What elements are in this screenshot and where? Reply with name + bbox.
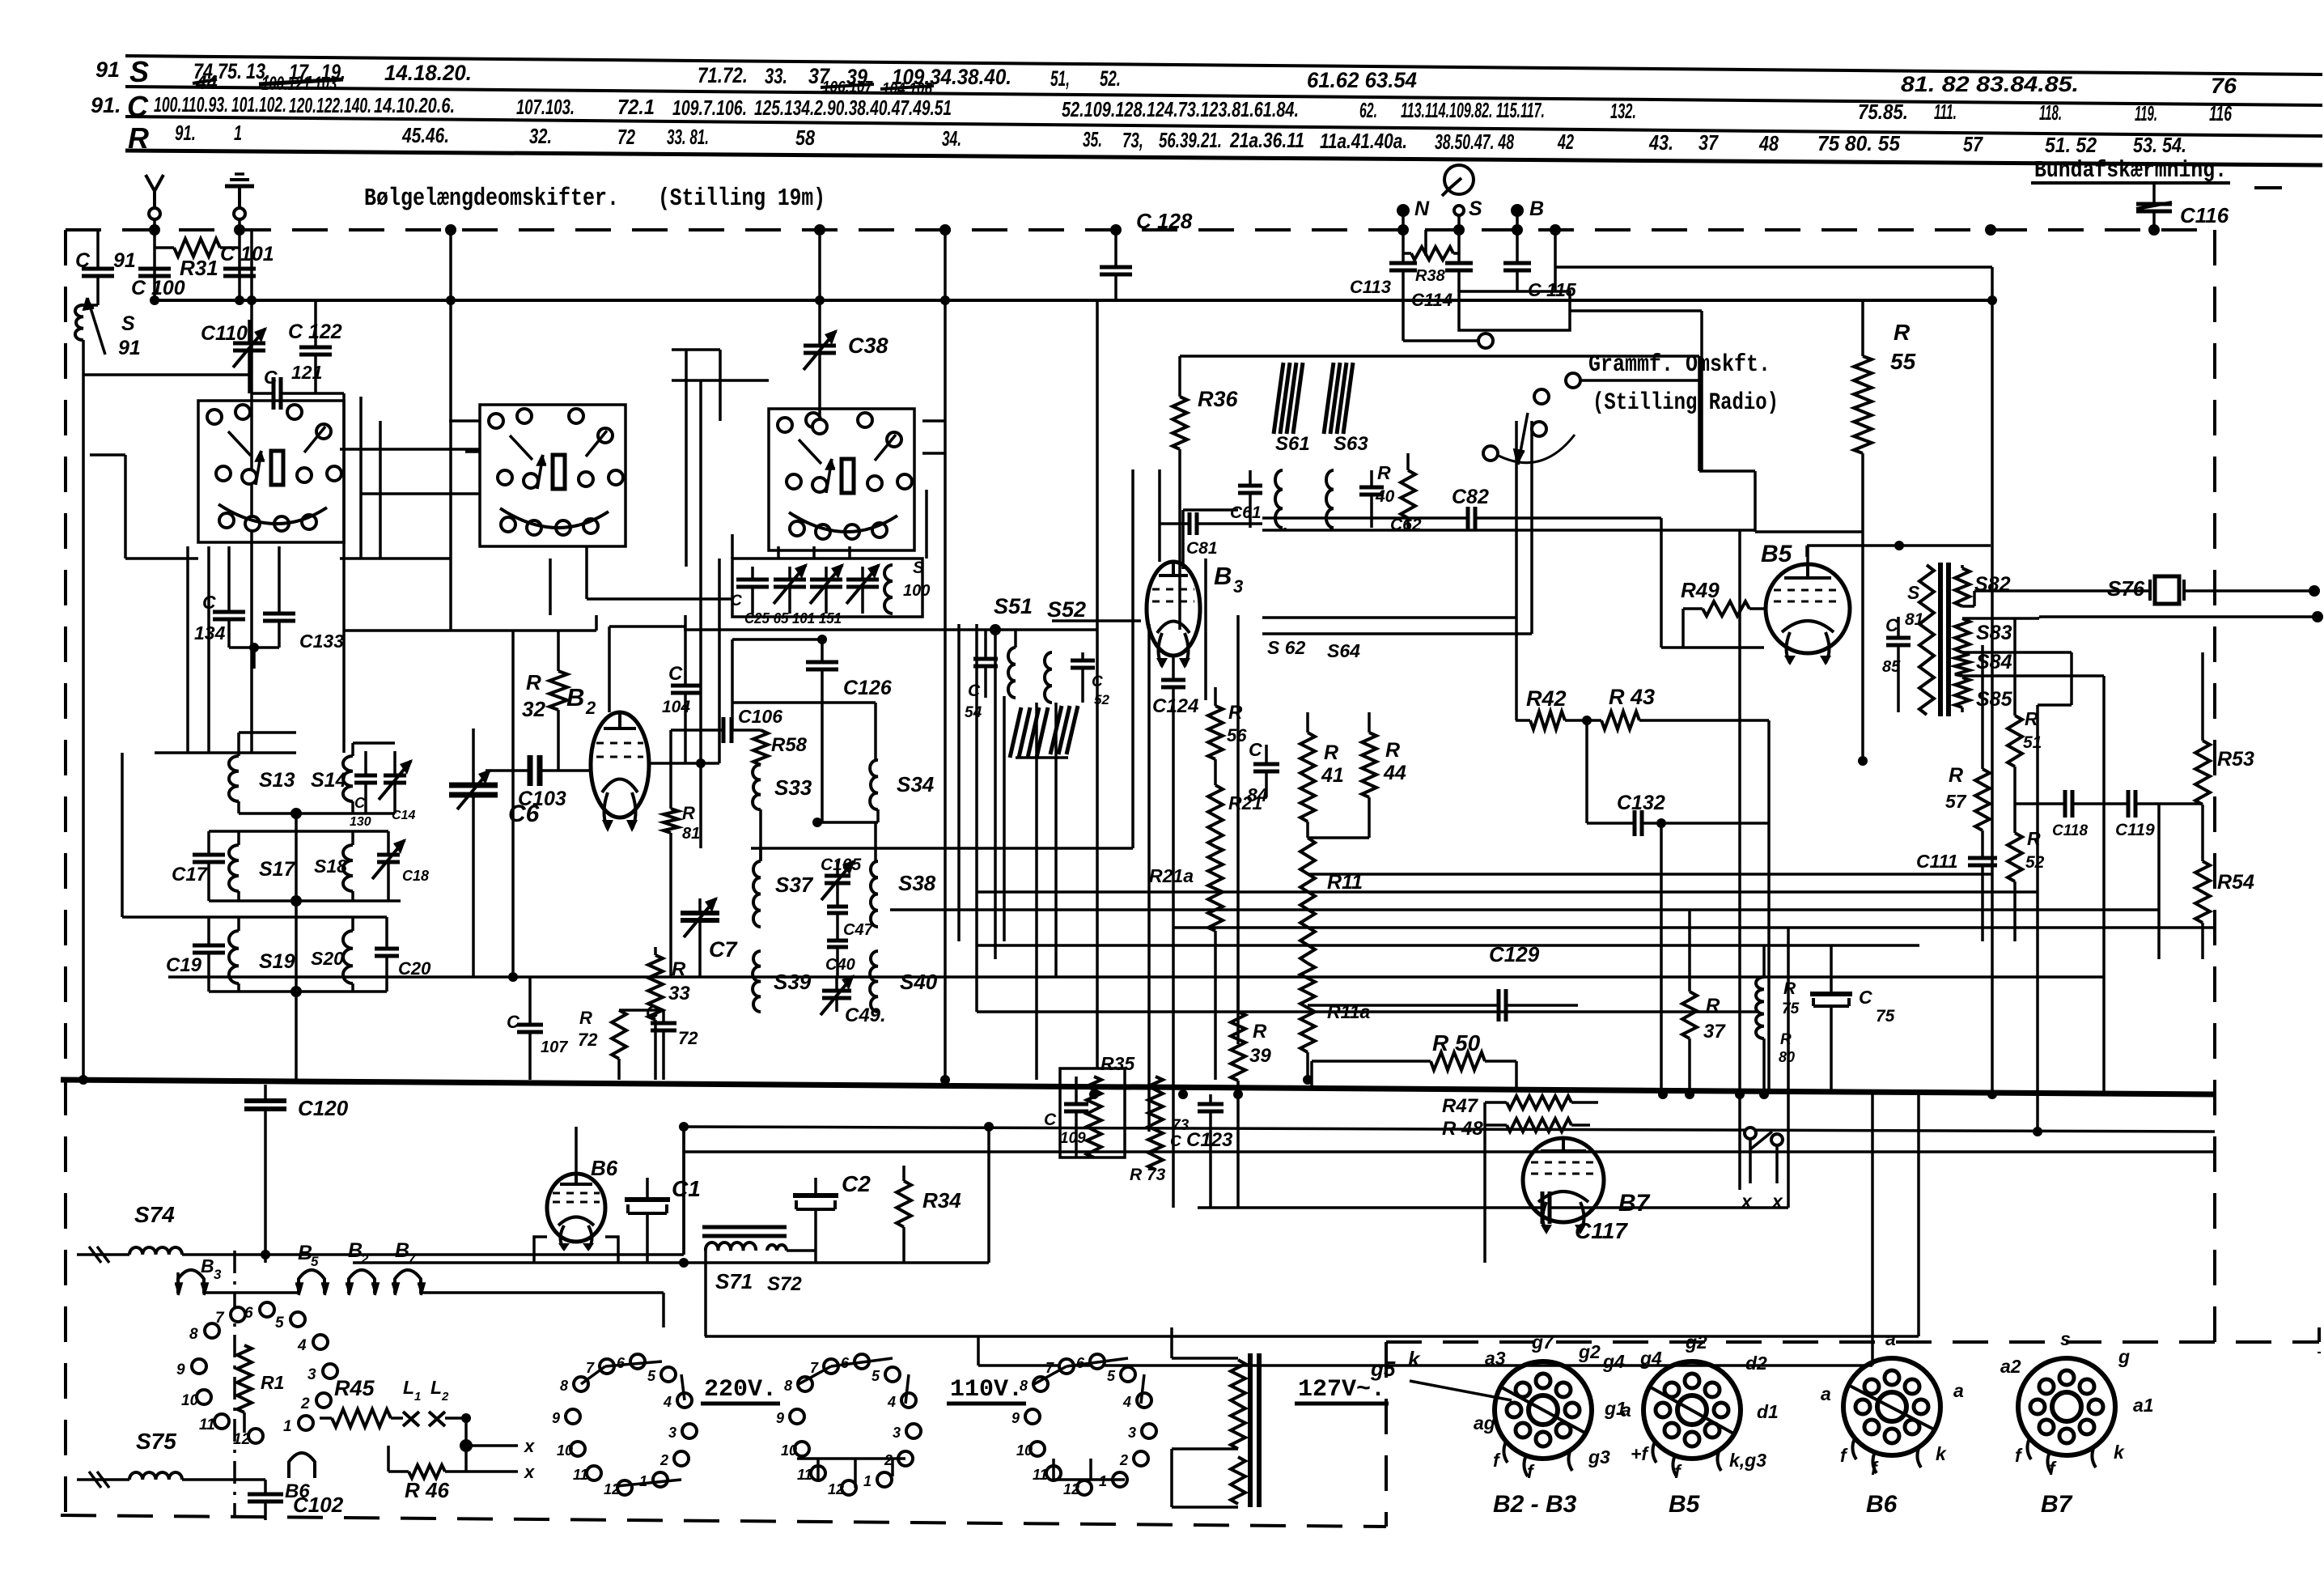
coil S34	[870, 760, 878, 809]
svg-text:1: 1	[414, 1390, 421, 1404]
svg-text:72: 72	[578, 1030, 598, 1050]
svg-text:35.: 35.	[1083, 127, 1102, 151]
coil S39	[753, 951, 761, 1012]
resistor R44	[1368, 712, 1371, 733]
wire	[925, 490, 928, 559]
svg-text:C111: C111	[1916, 851, 1958, 872]
wire	[994, 630, 997, 959]
dash-dot chassis divider	[233, 1251, 236, 1517]
svg-text:C: C	[968, 682, 981, 700]
svg-text:11: 11	[1033, 1467, 1048, 1483]
resistor R55	[1861, 300, 1864, 356]
capacitor C20	[385, 917, 388, 949]
svg-text:80: 80	[1779, 1049, 1795, 1065]
svg-text:119.: 119.	[2135, 101, 2157, 125]
wire	[812, 546, 816, 559]
wire	[124, 455, 127, 559]
capacitor C117	[1198, 1206, 1542, 1209]
svg-text:R: R	[1894, 320, 1911, 345]
svg-text:S61: S61	[1275, 433, 1310, 455]
svg-text:91.: 91.	[91, 93, 121, 117]
svg-text:C119: C119	[2115, 821, 2155, 839]
terminal B	[1511, 204, 1524, 217]
resistor R1	[237, 1345, 252, 1412]
svg-text:x: x	[524, 1462, 535, 1482]
svg-text:8: 8	[1020, 1378, 1028, 1394]
wire	[1585, 720, 1588, 823]
svg-text:1: 1	[283, 1418, 292, 1435]
svg-text:S75: S75	[136, 1429, 176, 1454]
wire	[1131, 469, 1134, 848]
svg-text:118.: 118.	[2039, 100, 2062, 125]
svg-text:5: 5	[1107, 1368, 1116, 1384]
capacitor C107	[528, 977, 532, 1025]
svg-text:C116: C116	[2180, 203, 2229, 227]
svg-text:R 46: R 46	[405, 1478, 449, 1502]
svg-text:B6: B6	[591, 1156, 618, 1180]
tube B5	[1766, 564, 1850, 653]
resistor R21	[1208, 785, 1223, 847]
parts table frame	[125, 56, 2322, 74]
svg-text:R: R	[1385, 739, 1400, 762]
svg-text:C 100: C 100	[131, 277, 185, 299]
svg-text:R53: R53	[2217, 748, 2254, 771]
grammofon switch	[1403, 339, 1478, 342]
svg-text:C2: C2	[842, 1171, 871, 1196]
tube socket B2-B3	[1495, 1361, 1592, 1459]
svg-text:33. 81.: 33. 81.	[667, 125, 709, 149]
capacitor C114	[1457, 230, 1461, 263]
winding S82	[1955, 568, 1970, 606]
svg-text:132.: 132.	[1610, 99, 1636, 123]
svg-text:58: 58	[795, 125, 815, 150]
coil S13	[229, 756, 239, 801]
resistor R39	[1236, 977, 1240, 1012]
svg-text:S: S	[129, 55, 149, 88]
capacitor C100	[138, 267, 171, 271]
svg-text:a: a	[1621, 1399, 1631, 1421]
wire	[90, 453, 125, 457]
svg-text:C1: C1	[672, 1176, 701, 1201]
wire x557	[449, 230, 452, 559]
bus thick ground	[61, 1080, 2216, 1094]
svg-text:C14: C14	[392, 809, 415, 822]
wire B6 box	[534, 1237, 547, 1263]
svg-text:42: 42	[1557, 130, 1574, 154]
svg-text:51. 52: 51. 52	[2045, 133, 2097, 157]
wire	[207, 546, 210, 753]
svg-text:B6: B6	[285, 1480, 310, 1502]
wire x1450	[1172, 687, 1175, 1208]
wire	[699, 559, 702, 848]
wire	[575, 1127, 578, 1174]
svg-text:40: 40	[1375, 487, 1395, 506]
svg-text:C 101: C 101	[220, 243, 274, 265]
capacitor C113	[1402, 230, 1405, 263]
antenna	[153, 191, 156, 208]
wire	[987, 1127, 990, 1263]
voltage selector 220V position	[574, 1377, 588, 1391]
wire	[449, 559, 452, 631]
trimmer C49	[835, 977, 838, 991]
resistor R35	[1087, 1077, 1101, 1157]
svg-text:S76: S76	[2107, 576, 2145, 601]
svg-text:72: 72	[617, 125, 635, 149]
svg-text:S39: S39	[774, 970, 812, 994]
wire antenna	[153, 219, 156, 300]
wire	[549, 559, 552, 615]
svg-text:4: 4	[663, 1394, 672, 1410]
capacitor C123	[1209, 1094, 1212, 1104]
svg-text:110V.: 110V.	[950, 1376, 1023, 1404]
svg-text:C: C	[1249, 739, 1262, 760]
svg-text:121: 121	[291, 362, 322, 383]
chassis dashed border left	[64, 230, 67, 1520]
svg-text:+f: +f	[1631, 1443, 1649, 1464]
coil S100	[884, 565, 893, 614]
trimmer C14	[393, 751, 397, 775]
resistor R54	[2201, 805, 2204, 861]
svg-text:x: x	[1740, 1191, 1753, 1212]
svg-text:11: 11	[199, 1416, 215, 1433]
output transformer core	[1938, 563, 1943, 716]
wire	[682, 1127, 685, 1255]
svg-text:91: 91	[113, 249, 136, 272]
svg-text:56.39.21.: 56.39.21.	[1159, 128, 1222, 152]
svg-text:S72: S72	[767, 1273, 802, 1295]
svg-text:a: a	[1953, 1380, 1964, 1401]
resistor R37	[1688, 910, 1691, 992]
svg-text:S37: S37	[775, 873, 814, 897]
capacitor C25 row	[751, 567, 754, 580]
svg-text:43.: 43.	[1648, 130, 1673, 155]
svg-text:R1: R1	[261, 1372, 284, 1393]
svg-text:1: 1	[1099, 1473, 1107, 1489]
tube socket box dashed top	[1386, 1340, 2319, 1344]
svg-text:62.: 62.	[1359, 98, 1377, 122]
wire y778	[684, 628, 1097, 631]
wire	[1698, 356, 1701, 471]
svg-text:48: 48	[1758, 131, 1779, 155]
svg-text:12: 12	[1063, 1481, 1079, 1497]
svg-text:S38: S38	[898, 871, 936, 895]
svg-text:C82: C82	[1452, 486, 1489, 508]
wire	[361, 492, 480, 495]
chassis dashed border bottom	[61, 1515, 1386, 1527]
svg-text:76: 76	[2211, 74, 2237, 98]
svg-text:C133: C133	[299, 631, 344, 652]
svg-text:130: 130	[350, 815, 371, 829]
svg-text:S64: S64	[1327, 640, 1360, 661]
wire	[957, 624, 961, 941]
svg-text:C: C	[1859, 987, 1872, 1008]
svg-text:72.1: 72.1	[617, 95, 655, 119]
resistor R46	[388, 1470, 409, 1473]
coil S37	[753, 861, 761, 927]
wire	[449, 419, 480, 423]
wire	[1871, 1094, 1874, 1366]
capacitor C106	[671, 728, 723, 732]
svg-text:R 48: R 48	[1442, 1118, 1483, 1140]
long bus y1250	[977, 1010, 1758, 1013]
winding tap wires	[1961, 565, 1964, 568]
svg-text:C38: C38	[848, 333, 888, 358]
wire	[1183, 508, 1238, 512]
svg-text:(Stilling Radio): (Stilling Radio)	[1592, 389, 1779, 417]
rotary wafer switch bank 2	[480, 405, 626, 546]
svg-text:2: 2	[360, 1251, 369, 1267]
tube socket box dashed corner right	[2318, 1327, 2321, 1353]
svg-text:R58: R58	[771, 734, 808, 756]
svg-text:116: 116	[2209, 101, 2232, 125]
svg-text:C132: C132	[1617, 792, 1665, 814]
svg-text:d1: d1	[1757, 1401, 1779, 1422]
svg-text:75: 75	[1782, 1000, 1800, 1017]
wire y655	[1262, 529, 1755, 532]
long bus y1651	[705, 1335, 1919, 1338]
coil S20	[343, 931, 353, 983]
svg-text:C61: C61	[1230, 503, 1262, 522]
wire	[1554, 230, 1557, 291]
main bus wire y371	[155, 299, 1991, 302]
svg-text:5: 5	[275, 1315, 284, 1332]
svg-text:2: 2	[659, 1452, 668, 1468]
svg-text:C113: C113	[1350, 277, 1391, 297]
coil S91	[75, 305, 83, 340]
wire	[1424, 230, 1427, 256]
winding S83	[1955, 618, 1970, 652]
svg-text:8: 8	[784, 1378, 792, 1394]
winding S81	[1919, 565, 1934, 715]
coil S51	[1014, 630, 1017, 648]
svg-text:R: R	[682, 803, 695, 823]
wire y1048	[751, 847, 1133, 850]
svg-text:R34: R34	[922, 1188, 961, 1213]
svg-text:a3: a3	[1485, 1348, 1506, 1369]
resistor R48	[1485, 1123, 1507, 1127]
wire	[186, 546, 189, 753]
svg-text:100: 100	[903, 582, 930, 600]
svg-text:14.10.20.6.: 14.10.20.6.	[374, 93, 455, 117]
tube socket B7	[2018, 1358, 2115, 1455]
wire	[1054, 703, 1058, 977]
long bus y1392	[684, 1127, 2215, 1132]
svg-text:33.: 33.	[765, 64, 787, 88]
resistor R31	[155, 246, 174, 249]
wire spine	[295, 813, 298, 1080]
svg-text:S14: S14	[311, 769, 347, 792]
resistor R42	[1516, 719, 1530, 722]
coil S75	[77, 1478, 129, 1481]
svg-text:S52: S52	[1047, 597, 1086, 622]
tube B3	[1147, 562, 1200, 656]
svg-text:91: 91	[95, 57, 120, 82]
ladder wires row1	[237, 733, 240, 756]
svg-text:100.110.93.: 100.110.93.	[154, 92, 228, 117]
svg-text:4: 4	[1122, 1394, 1131, 1410]
svg-text:C: C	[202, 592, 216, 613]
capacitor C133	[278, 546, 281, 614]
svg-text:5: 5	[647, 1368, 656, 1384]
svg-text:37: 37	[1703, 1021, 1726, 1043]
chassis dashed border right	[2213, 230, 2216, 1344]
svg-text:C: C	[1885, 615, 1899, 635]
output wires	[1974, 589, 2150, 592]
trimmer C65	[788, 567, 791, 580]
wire	[587, 597, 732, 601]
wire ground	[238, 219, 241, 300]
svg-text:R: R	[1228, 702, 1243, 724]
svg-text:R11: R11	[1327, 871, 1363, 894]
svg-text:B: B	[1214, 562, 1232, 590]
tube socket B6	[1843, 1358, 1940, 1455]
chassis dashed border top	[66, 228, 2215, 231]
capacitor C101	[223, 267, 256, 271]
svg-text:7: 7	[215, 1310, 225, 1327]
capacitor C103	[486, 769, 530, 772]
svg-text:34.: 34.	[942, 126, 961, 151]
svg-text:L: L	[403, 1377, 414, 1398]
resistor R75 coil	[1756, 977, 1764, 1038]
svg-text:41: 41	[1321, 764, 1344, 787]
svg-text:R49: R49	[1681, 578, 1720, 602]
svg-text:33: 33	[668, 983, 690, 1004]
trimmer C151	[861, 567, 864, 580]
svg-text:N: N	[1414, 197, 1430, 220]
svg-text:39: 39	[1249, 1045, 1271, 1067]
wire	[672, 379, 769, 382]
svg-text:g4: g4	[1602, 1351, 1625, 1372]
svg-text:B: B	[566, 683, 584, 711]
wire	[340, 557, 451, 560]
svg-text:C: C	[127, 90, 149, 123]
svg-text:R31: R31	[180, 256, 218, 280]
capacitor C2	[814, 1178, 817, 1196]
svg-text:54: 54	[965, 704, 982, 721]
svg-text:k: k	[1408, 1347, 1421, 1371]
wire	[125, 557, 198, 560]
svg-text:R: R	[1706, 995, 1720, 1017]
capacitor C84	[1265, 745, 1268, 764]
capacitor C75	[1830, 945, 1833, 994]
svg-text:6: 6	[244, 1305, 253, 1322]
svg-text:C: C	[75, 249, 91, 272]
svg-text:B5: B5	[1669, 1491, 1701, 1518]
wire y657 plate	[1755, 530, 1863, 533]
svg-text:S82: S82	[1974, 573, 2011, 596]
long bus y1687	[978, 1364, 1872, 1367]
svg-text:111.: 111.	[1934, 100, 1957, 124]
wire	[1147, 624, 1151, 1132]
capacitor C102	[264, 1480, 267, 1494]
wire	[1158, 469, 1161, 524]
svg-text:14.18.20.: 14.18.20.	[384, 61, 472, 85]
capacitor C81	[1160, 522, 1190, 525]
svg-text:3: 3	[307, 1366, 316, 1383]
capacitor C109	[1075, 1077, 1078, 1104]
svg-text:C106: C106	[738, 706, 782, 727]
svg-text:220V.: 220V.	[704, 1376, 777, 1404]
svg-text:C 122: C 122	[288, 321, 342, 343]
svg-text:S18: S18	[314, 856, 347, 877]
svg-text:S51: S51	[994, 594, 1033, 618]
wire	[672, 348, 720, 351]
svg-text:75.85.: 75.85.	[1858, 100, 1908, 124]
resistor R53	[2201, 652, 2204, 741]
wire ladder top	[229, 646, 279, 649]
svg-text:C25 65 101 151: C25 65 101 151	[744, 610, 842, 626]
resistor R50	[1312, 1060, 1431, 1063]
svg-text:7: 7	[408, 1251, 417, 1267]
wire	[1096, 300, 1099, 1068]
terminal S	[1454, 206, 1464, 215]
capacitor C40	[836, 914, 839, 941]
svg-text:C114: C114	[1411, 290, 1452, 310]
svg-text:32.: 32.	[529, 124, 552, 148]
resistor R45	[320, 1416, 332, 1420]
svg-text:10: 10	[781, 1442, 797, 1459]
svg-text:9: 9	[776, 1410, 784, 1426]
resistor R33	[654, 947, 657, 955]
svg-text:Bundafskærmning.: Bundafskærmning.	[2034, 157, 2227, 184]
capacitor C62	[1370, 470, 1373, 487]
wire	[342, 393, 346, 453]
svg-text:C: C	[354, 795, 366, 811]
coil S40	[870, 951, 878, 1012]
voltage selector 127V position	[1033, 1377, 1048, 1391]
svg-text:B5: B5	[1761, 541, 1793, 567]
capacitor C130	[364, 751, 367, 775]
wire	[874, 822, 877, 861]
long bus y1146	[1173, 926, 2215, 929]
svg-text:1: 1	[639, 1473, 647, 1489]
svg-text:55: 55	[1890, 349, 1916, 374]
wire	[1035, 703, 1038, 1080]
svg-text:32: 32	[522, 697, 545, 721]
capacitor C54	[984, 630, 987, 659]
coil S18	[343, 845, 353, 891]
capacitor C126	[821, 639, 824, 662]
svg-text:2: 2	[300, 1395, 310, 1412]
svg-text:C40: C40	[825, 956, 855, 974]
wire	[1306, 822, 1309, 838]
svg-text:ag: ag	[1474, 1412, 1495, 1433]
capacitor C61	[1249, 470, 1252, 486]
svg-text:C118: C118	[2052, 822, 2088, 839]
svg-text:37: 37	[1698, 130, 1719, 155]
svg-text:R: R	[1949, 764, 1963, 787]
wire	[732, 638, 822, 641]
wire	[1330, 528, 1333, 530]
capacitor C72	[662, 1010, 665, 1023]
coil S61	[1275, 470, 1283, 528]
long bus y1168	[977, 944, 1919, 947]
svg-text:81: 81	[1905, 610, 1923, 629]
wire right vertical x2462	[1740, 265, 1992, 269]
rotary wafer switch bank 1	[198, 401, 344, 542]
svg-text:C: C	[507, 1012, 520, 1032]
svg-text:81: 81	[682, 825, 700, 843]
resistor R36	[1178, 356, 1181, 397]
svg-text:C81: C81	[1186, 539, 1218, 558]
svg-text:C126: C126	[843, 677, 893, 699]
wire	[1306, 711, 1309, 714]
svg-text:104: 104	[662, 698, 690, 716]
svg-text:12: 12	[828, 1481, 844, 1497]
svg-text:B2 - B3: B2 - B3	[1493, 1491, 1577, 1518]
svg-text:107: 107	[541, 1038, 568, 1056]
trimmer C18	[387, 831, 390, 855]
